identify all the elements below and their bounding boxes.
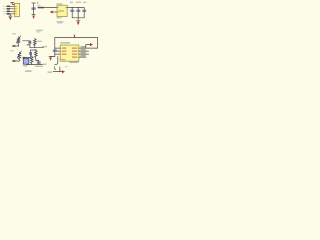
fuse F1	[38, 7, 44, 9]
arrow right A1	[90, 43, 93, 46]
wire IC1 pin R4	[79, 56, 86, 58]
wire stub L	[54, 67, 55, 70]
label text mid-left row2	[36, 31, 40, 32]
label text hook	[59, 59, 62, 60]
capacitor C1	[32, 3, 36, 8]
jumper pad JP2	[7, 8, 10, 10]
arrow right A2	[62, 70, 65, 73]
IC2 bottom label text	[56, 17, 61, 18]
net label text A	[42, 46, 47, 47]
wire R4 top	[31, 50, 36, 52]
J1 pin 2 mark	[15, 7, 17, 10]
net label text R3	[81, 52, 86, 53]
resistor R1	[17, 37, 20, 46]
wire R4 bottom link	[36, 59, 39, 61]
net label text R2	[81, 49, 86, 50]
capacitor C4	[83, 8, 85, 18]
IC2 pin stub in	[57, 6, 58, 9]
label text far-left B	[10, 50, 14, 51]
wire net2 to J1	[6, 8, 14, 10]
wire IC1 pin L2	[55, 50, 60, 52]
resistor R4	[35, 50, 38, 60]
J1 wire label texts	[3, 6, 6, 14]
pad P2	[12, 60, 15, 62]
C3 value text	[76, 2, 81, 3]
ground GND4	[49, 56, 52, 58]
resistor R3	[18, 52, 21, 61]
C2 value text	[70, 2, 73, 3]
regulator IC2	[57, 5, 67, 16]
S1 pin tick	[25, 57, 26, 60]
node dot L2	[54, 51, 55, 52]
wire MK1 down	[29, 43, 31, 47]
power tick on rail	[74, 35, 75, 37]
IC1 name text	[60, 42, 70, 43]
pad P3	[23, 57, 25, 59]
pad P1	[12, 45, 15, 47]
wire R3 bottom	[13, 60, 19, 62]
wire net4 to J1	[6, 13, 14, 15]
IC1 bottom-left text	[62, 59, 65, 60]
wire IC1 pin L1	[55, 47, 60, 49]
wire IC1 pin L3	[55, 53, 60, 55]
IC1 pin text right col	[72, 48, 77, 58]
label POWER text	[57, 21, 64, 22]
J1 pin 4 mark	[15, 12, 17, 15]
wire IC1 pin R3	[79, 53, 89, 55]
net label text BL	[43, 64, 47, 65]
node dot 2	[78, 7, 79, 8]
R3 trimmer arrow	[17, 51, 21, 58]
connector J1	[14, 3, 19, 16]
wire to GND4	[51, 56, 55, 58]
S1 label text	[23, 65, 27, 66]
wire VOUT	[67, 7, 84, 9]
wire mic1 in	[23, 40, 29, 42]
wire IC1 left bus	[54, 38, 56, 57]
IC2 name text	[56, 3, 62, 4]
net label text R4	[81, 55, 86, 56]
wire bottom net	[53, 67, 62, 72]
supply arrow left of IC2	[52, 11, 57, 13]
ground GND3	[76, 18, 80, 21]
jumper pad JP4	[7, 13, 10, 15]
C4 value text	[83, 2, 86, 3]
label text bottom-left	[48, 72, 53, 73]
R1 trimmer arrow	[16, 36, 20, 43]
net label text R1	[81, 46, 86, 47]
wire ground bus	[72, 17, 84, 19]
wire net3 to J1	[6, 10, 14, 12]
wire arrow riser	[86, 45, 91, 49]
label text mid-left row1	[36, 30, 43, 31]
switch S1	[23, 58, 29, 64]
ground GND2	[32, 14, 35, 16]
microphone MK1	[29, 41, 31, 43]
jumper pad JP1	[7, 6, 10, 8]
capacitor C3	[77, 8, 79, 18]
IC2 pin stub 2	[57, 11, 58, 14]
wire long rail	[55, 38, 98, 49]
node dot L1	[54, 48, 55, 49]
node dot 1	[72, 7, 73, 8]
wire IC1 pin R2	[79, 50, 89, 52]
IC1 pin text left col	[62, 48, 67, 55]
label VIN text	[37, 5, 40, 6]
label text near arrow	[65, 66, 68, 67]
node dot 3	[78, 17, 79, 18]
wire bottom net BL	[27, 63, 43, 65]
mcu IC1	[60, 45, 79, 61]
C6 label text	[35, 66, 43, 67]
label text far-left	[12, 33, 16, 34]
R4 top red tick	[35, 49, 36, 50]
IC2 inner text	[59, 10, 64, 11]
IC2 pin stub out	[65, 6, 66, 9]
resistor R2	[34, 38, 37, 48]
wire R1 bottom	[13, 45, 18, 47]
J1 pin 3 mark	[15, 10, 17, 13]
label VIN tick	[36, 2, 39, 4]
ground GND1	[9, 14, 12, 16]
J1 pin 1 mark	[15, 5, 17, 8]
microphone MK2	[30, 52, 32, 54]
wire net1 to J1	[6, 5, 14, 7]
power symbol VCC1	[11, 3, 15, 5]
wire J-hook	[55, 56, 58, 64]
footer text	[25, 70, 32, 71]
resistor R5	[30, 56, 33, 65]
jumper pad JP3	[7, 11, 10, 13]
wire MK2 down-left	[24, 55, 31, 58]
R2 label text	[27, 44, 31, 45]
wire group A out	[30, 47, 44, 49]
capacitor C2	[71, 8, 73, 18]
IC1 value text	[69, 62, 78, 63]
label text mid-left row3	[36, 41, 41, 42]
capacitor C5	[53, 50, 56, 51]
wire VIN	[38, 7, 57, 9]
capacitor C6	[38, 60, 40, 64]
